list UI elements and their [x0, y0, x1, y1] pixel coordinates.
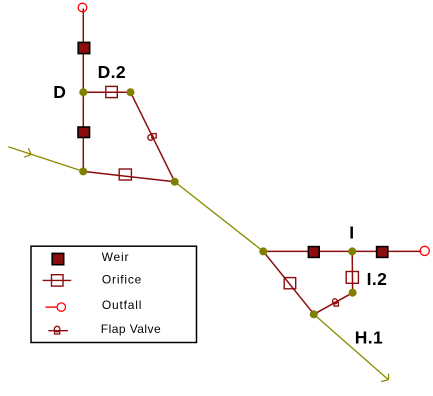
orifice I.2: [346, 272, 358, 284]
flap valve on link J6-J7: [332, 299, 338, 306]
legend orifice symbol: [43, 279, 72, 281]
channel link (olive) downstream segment from J6: [314, 314, 389, 380]
legend flap valve symbol: [48, 330, 68, 332]
weir W4: [377, 247, 388, 258]
legend weir symbol: [52, 253, 64, 264]
node D: [79, 88, 87, 96]
svg-text:Flap Valve: Flap Valve: [101, 322, 161, 336]
link node I to node J7 (vertical): [351, 251, 353, 292]
outfall O2 (right): [420, 246, 429, 255]
orifice on link J3-J4: [119, 169, 131, 180]
orifice on link J5-J6: [284, 278, 296, 289]
node J2: [127, 88, 135, 96]
flow arrow on upstream channel: [24, 148, 31, 157]
link node D to node J2 (horizontal): [83, 91, 130, 93]
svg-text:D.2: D.2: [98, 62, 126, 82]
channel link (olive) middle segment J4 to J5: [175, 182, 264, 252]
outfall O1 (top): [78, 3, 87, 12]
svg-text:Weir: Weir: [102, 250, 130, 264]
orifice D.2: [106, 86, 118, 97]
legend outfall symbol: [46, 306, 58, 308]
svg-text:I: I: [349, 222, 354, 242]
link node J5 to outfall O2 (horizontal): [263, 250, 421, 252]
link node J6 to node J7 (diagonal with flap valve): [314, 293, 353, 315]
flow arrowhead at downstream end: [381, 374, 388, 382]
node J5: [259, 247, 267, 255]
channel link (olive) upstream segment into node J3: [8, 147, 83, 172]
svg-text:Outfall: Outfall: [102, 298, 142, 312]
node J4: [171, 178, 179, 186]
link node J2 to node J4 (diagonal): [131, 92, 175, 182]
node J7: [349, 289, 357, 297]
node J3: [79, 167, 87, 175]
legend box: [31, 246, 197, 342]
weir W1: [78, 42, 90, 53]
svg-text:D: D: [53, 82, 66, 102]
weir W3: [308, 247, 319, 258]
node I: [348, 247, 356, 255]
svg-text:Orifice: Orifice: [102, 273, 142, 287]
flap valve on link J2-J4: [148, 134, 156, 141]
svg-text:I.2: I.2: [367, 269, 388, 289]
weir W2: [78, 127, 90, 138]
link node J5 to node J6 (diagonal): [263, 251, 314, 314]
svg-text:H.1: H.1: [355, 328, 383, 348]
link node J3 to node J4: [83, 171, 175, 181]
node J6: [310, 310, 318, 318]
link outfall O1 to node J3 (vertical, through weirs): [82, 9, 84, 172]
